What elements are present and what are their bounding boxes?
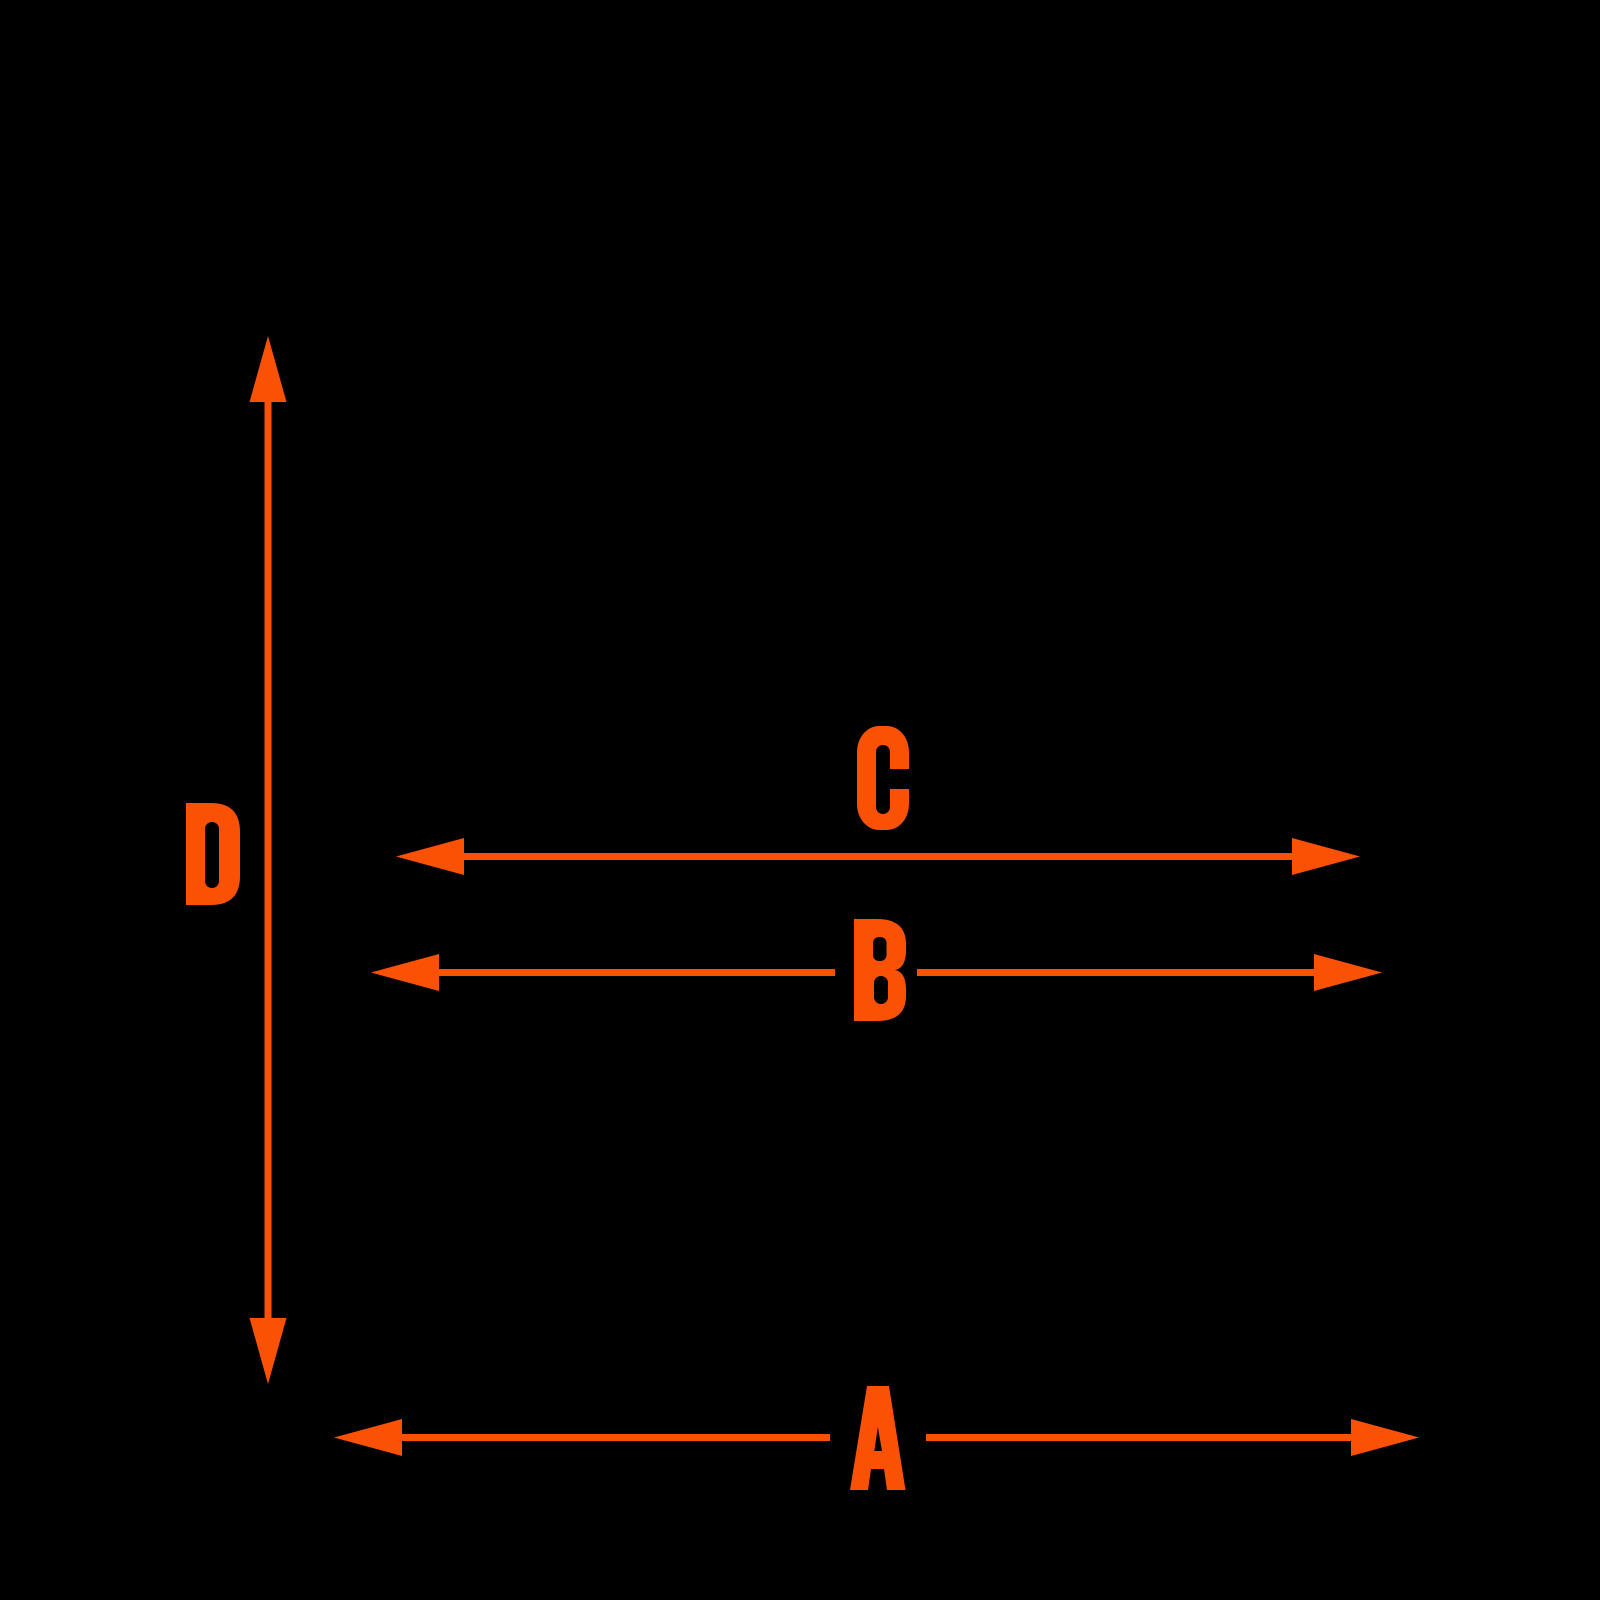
arrowhead D top (250, 336, 287, 402)
wire: arrow B shaft right segment (917, 969, 1318, 976)
wire: arrow C shaft (458, 853, 1298, 860)
arrowhead C right (1292, 838, 1360, 875)
wire: arrow B shaft left segment (435, 969, 835, 976)
arrowhead D bottom (250, 1318, 287, 1384)
wire: arrow A shaft right segment (926, 1434, 1355, 1441)
dimension arrow C (horizontal double-headed) (396, 838, 1360, 875)
label D (186, 803, 240, 905)
arrowhead C left (396, 838, 464, 875)
wire: arrow D shaft (265, 398, 272, 1320)
label B (854, 919, 906, 1021)
wire: arrow A shaft left segment (398, 1434, 830, 1441)
label C (857, 726, 909, 830)
label A (850, 1386, 906, 1490)
arrowhead B right (1314, 954, 1382, 991)
dimension arrow A (horizontal double-headed, gap at label) (334, 1419, 1419, 1456)
dimension arrow D (vertical double-headed) (250, 336, 287, 1384)
arrowhead A left (334, 1419, 402, 1456)
arrowhead B left (371, 954, 439, 991)
arrowhead A right (1351, 1419, 1419, 1456)
dimension arrow B (horizontal double-headed, gap at label) (371, 954, 1382, 991)
